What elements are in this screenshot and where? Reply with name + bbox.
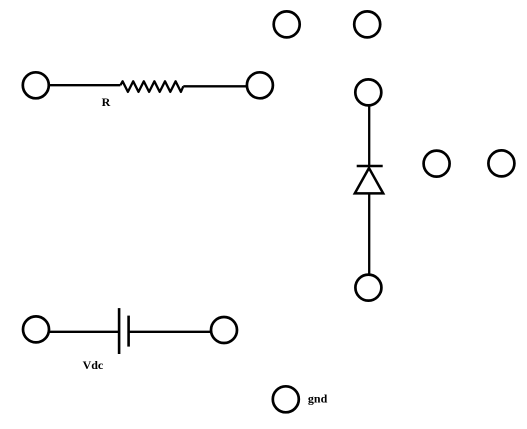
wire (battery Vdc to node F) xyxy=(129,331,211,333)
wire (node A to resistor R) xyxy=(49,84,120,86)
node pin2 (top-right open terminal) xyxy=(354,11,380,37)
node A (resistor left terminal) xyxy=(23,72,49,98)
node pin3 (mid-right open terminal) xyxy=(424,151,450,177)
node F (battery right terminal) xyxy=(211,317,237,343)
svg-text:gnd: gnd xyxy=(308,391,328,405)
battery Vdc positive plate (long) xyxy=(118,308,121,354)
node gnd (ground terminal) xyxy=(273,386,299,412)
wire (resistor R to node B) xyxy=(183,85,247,87)
wire (node C down to diode D1 cathode bar) xyxy=(368,106,370,166)
node E (battery left terminal) xyxy=(23,316,49,342)
node D (diode bottom terminal) xyxy=(355,275,381,301)
node C (diode anode-side top terminal) xyxy=(355,79,381,105)
battery Vdc negative plate (short) xyxy=(127,316,130,347)
diode D1 triangle xyxy=(355,168,383,193)
node pin4 (far-right open terminal) xyxy=(488,150,514,176)
diode D1 cathode bar xyxy=(357,165,383,168)
node pin1 (top-left open terminal) xyxy=(274,11,300,37)
svg-text:R: R xyxy=(102,95,111,109)
resistor R xyxy=(120,81,183,92)
wire (diode D1 to node D) xyxy=(368,193,370,274)
svg-text:Vdc: Vdc xyxy=(83,358,104,372)
wire (node E to battery Vdc) xyxy=(49,331,119,333)
node B (resistor right terminal) xyxy=(247,72,273,98)
